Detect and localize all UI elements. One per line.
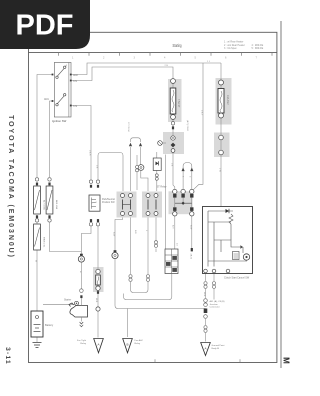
svg-text:Clutch Start Cancel SW: Clutch Start Cancel SW — [224, 276, 250, 279]
svg-text:PDF: PDF — [16, 9, 74, 41]
svg-text:ST Relay: ST Relay — [157, 186, 168, 189]
svg-text:AM1 40A: AM1 40A — [55, 200, 58, 210]
svg-text:B-Y: B-Y — [172, 225, 174, 229]
svg-text:2 B: 2 B — [171, 163, 173, 167]
svg-text:TOYOTA TACOMA (EM03N0U): TOYOTA TACOMA (EM03N0U) — [7, 115, 14, 259]
svg-text:Position SW: Position SW — [102, 201, 115, 204]
svg-text:1 B-Y: 1 B-Y — [201, 110, 203, 116]
svg-text:(A/T) 2 B-R: (A/T) 2 B-R — [186, 120, 189, 131]
svg-text:1 J: 1 J — [207, 61, 210, 63]
svg-text:AM2: AM2 — [73, 74, 78, 77]
svg-text:B-R: B-R — [134, 230, 136, 234]
svg-text:2A 22: 2A 22 — [190, 254, 193, 260]
svg-text:W-B: W-B — [203, 292, 205, 297]
svg-text:5 : 3RZ-FE: 5 : 3RZ-FE — [252, 47, 264, 50]
svg-text:Fus Tight: Fus Tight — [77, 339, 86, 342]
svg-text:Starter: Starter — [64, 299, 71, 302]
svg-text:3-11: 3-11 — [4, 347, 11, 365]
svg-text:ST2: ST2 — [73, 106, 78, 108]
svg-text:AM1: AM1 — [44, 98, 49, 101]
svg-text:A: A — [97, 343, 99, 347]
svg-text:W-B: W-B — [95, 298, 97, 303]
svg-text:ST1: ST1 — [73, 81, 78, 83]
svg-text:7.5A ST: 7.5A ST — [177, 99, 180, 108]
svg-text:2 B: 2 B — [165, 65, 169, 67]
svg-text:Fus A&C: Fus A&C — [135, 339, 144, 342]
svg-text:Junction: Junction — [210, 303, 219, 306]
svg-text:Starting: Starting — [173, 43, 182, 48]
svg-text:Connector: Connector — [210, 306, 220, 309]
svg-text:Body M: Body M — [212, 348, 220, 350]
svg-text:Battery: Battery — [45, 323, 54, 327]
svg-text:A: A — [204, 347, 206, 351]
svg-text:40A AM2: 40A AM2 — [226, 95, 229, 105]
svg-text:M: M — [282, 357, 291, 364]
svg-text:Ground Point: Ground Point — [212, 344, 225, 347]
svg-text:Relay: Relay — [135, 343, 141, 345]
svg-text:ST 2 R-W: ST 2 R-W — [127, 122, 129, 132]
svg-text:A41 (A), C8 (B): A41 (A), C8 (B) — [210, 300, 225, 303]
svg-text:Park/Neutral: Park/Neutral — [102, 198, 115, 201]
svg-text:B: B — [126, 343, 128, 347]
svg-text:MAIN 2.0L: MAIN 2.0L — [43, 237, 46, 248]
svg-text:2 B-R: 2 B-R — [89, 150, 91, 156]
svg-text:ALT 100A: ALT 100A — [43, 200, 46, 210]
svg-text:3 : CA Spec.: 3 : CA Spec. — [224, 47, 238, 50]
svg-text:Ignition SW: Ignition SW — [52, 119, 67, 123]
svg-text:1 B: 1 B — [96, 165, 98, 169]
svg-text:Relay: Relay — [80, 343, 86, 345]
